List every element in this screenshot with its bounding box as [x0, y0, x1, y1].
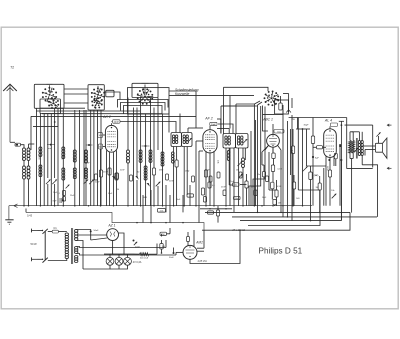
wire	[186, 147, 188, 196]
page number 72	[10, 65, 14, 69]
wire	[104, 92, 120, 100]
hum pot	[376, 132, 380, 143]
svg-text:8µF: 8µF	[53, 201, 57, 203]
wire	[33, 116, 58, 126]
label 50nF	[120, 170, 125, 172]
wire	[196, 141, 203, 206]
label 4,05V	[198, 260, 208, 263]
wire	[31, 116, 196, 123]
svg-text:50nF: 50nF	[251, 187, 256, 189]
label 1M	[314, 175, 319, 177]
label 50nF	[85, 163, 90, 165]
coil L12	[149, 98, 152, 206]
wire	[10, 141, 15, 143]
wire	[306, 129, 308, 166]
svg-text:700: 700	[162, 246, 165, 248]
wire	[30, 116, 32, 150]
tube ABC1	[265, 124, 281, 152]
trimmer C8	[147, 183, 150, 187]
wire	[188, 128, 203, 133]
wire	[50, 114, 52, 206]
wire	[287, 121, 289, 218]
wire	[189, 185, 191, 206]
resistor 0,1M	[311, 121, 314, 158]
speaker	[362, 138, 387, 158]
field resistor	[349, 132, 355, 213]
wire	[43, 114, 45, 206]
resistor box	[275, 96, 289, 114]
wire	[119, 233, 125, 254]
electrolytic	[339, 144, 341, 147]
svg-text:4,5k: 4,5k	[160, 211, 164, 213]
svg-text:4V 0,3A: 4V 0,3A	[133, 261, 142, 264]
wire	[254, 101, 260, 206]
capacitor 8uF	[313, 157, 319, 206]
band switch box S1	[34, 84, 64, 113]
wire	[217, 129, 229, 134]
trimmer C1	[46, 180, 51, 206]
wire loop	[121, 103, 166, 111]
resistor 1M	[187, 232, 190, 245]
resistor	[115, 173, 118, 180]
wire	[64, 88, 88, 90]
resistor	[245, 181, 248, 188]
resistor 1M	[313, 146, 326, 149]
wire	[229, 184, 246, 187]
svg-text:mw: mw	[48, 148, 52, 150]
transformer secondary heater2	[75, 255, 78, 262]
wire	[236, 104, 254, 134]
label Philips D 51	[259, 247, 303, 256]
svg-text:50nF: 50nF	[205, 170, 210, 172]
wire	[250, 131, 252, 206]
wire	[99, 110, 102, 206]
resistor 1k	[187, 194, 194, 198]
label 50	[315, 175, 318, 177]
wire	[179, 114, 181, 133]
capacitor 50nF	[328, 159, 330, 161]
svg-text:AZ 1: AZ 1	[107, 224, 115, 228]
band switch box S2	[88, 85, 114, 110]
series resistor 0,1A	[133, 253, 157, 260]
wire	[76, 234, 107, 236]
label 30	[137, 172, 140, 174]
svg-text:Philips D 51: Philips D 51	[259, 247, 303, 256]
wire	[83, 110, 85, 206]
wire	[83, 265, 110, 269]
tube AM2	[176, 230, 204, 259]
wire	[133, 108, 135, 206]
svg-text:25nF: 25nF	[103, 172, 108, 174]
svg-text:50nF: 50nF	[169, 257, 174, 259]
svg-text:0,5: 0,5	[212, 185, 215, 187]
pin wires AK2	[107, 151, 117, 206]
coil L16	[227, 148, 230, 185]
pin wires AL4	[326, 156, 334, 206]
svg-text:AK 2: AK 2	[102, 115, 111, 119]
svg-text:1kΩ: 1kΩ	[277, 131, 281, 133]
wire	[203, 230, 205, 248]
component row boxes	[95, 173, 195, 182]
coil L13	[161, 114, 164, 206]
wire	[302, 129, 304, 206]
antenna coil L1	[23, 148, 26, 206]
capacitor 1k box	[274, 130, 284, 134]
wire loop	[124, 106, 163, 114]
NF pot	[331, 190, 336, 198]
tube AK2	[102, 115, 117, 152]
svg-text:0,43: 0,43	[27, 214, 33, 218]
wire	[100, 149, 102, 206]
coil L11	[144, 114, 147, 206]
pin wires AF2	[206, 151, 214, 206]
svg-text:AF 2: AF 2	[204, 117, 213, 121]
wire	[262, 145, 269, 165]
wire	[64, 102, 88, 104]
label 50nF	[251, 187, 256, 189]
transformer core	[72, 228, 73, 264]
wire	[190, 230, 240, 263]
wire	[167, 228, 171, 234]
wire	[345, 125, 373, 167]
cathode resistor	[328, 170, 331, 206]
switch wafer S2b	[91, 97, 103, 109]
switch wafer S4	[264, 90, 280, 106]
junction dots	[23, 205, 303, 207]
wire	[64, 93, 88, 95]
core mark	[142, 145, 150, 147]
label smudges above bus	[53, 189, 300, 201]
wire	[224, 87, 269, 133]
svg-text:25n: 25n	[257, 174, 260, 176]
resistor 0,1M	[201, 188, 204, 195]
wire	[91, 238, 107, 240]
mains switch	[38, 229, 48, 263]
svg-text:50n: 50n	[99, 147, 102, 149]
wire	[110, 265, 128, 269]
wire	[157, 98, 159, 151]
label 1150	[326, 166, 328, 171]
aerial stub	[283, 94, 291, 113]
wire	[79, 110, 81, 206]
bus wire	[205, 212, 350, 214]
bus wire	[248, 190, 320, 226]
wire	[40, 107, 85, 109]
trimmer C4	[89, 180, 94, 185]
coil L9	[127, 150, 130, 206]
svg-text:72: 72	[10, 65, 14, 69]
svg-text:20pF: 20pF	[211, 124, 217, 126]
wire	[97, 110, 99, 206]
label 25nF	[221, 187, 226, 189]
wire	[312, 118, 314, 122]
resistor 4,5k	[158, 209, 166, 213]
capacitor 50nF	[233, 183, 240, 187]
coil L15	[172, 147, 175, 206]
capacitor	[266, 176, 269, 182]
svg-text:AM2: AM2	[195, 241, 203, 245]
coil L5	[73, 110, 76, 206]
wire	[76, 230, 91, 232]
capacitor 50nF	[90, 230, 99, 240]
trimmer in T1	[188, 138, 192, 142]
wire	[291, 98, 293, 108]
wire	[165, 185, 167, 212]
label 3M	[316, 187, 319, 189]
coil label	[160, 158, 162, 162]
wire	[175, 147, 178, 206]
bus wire	[202, 212, 350, 230]
wire	[136, 108, 138, 178]
transformer secondary HT	[75, 229, 78, 240]
wire	[233, 148, 235, 212]
wire	[36, 108, 38, 205]
wire	[91, 110, 94, 206]
svg-text:0,5M: 0,5M	[277, 186, 282, 188]
label 1M	[277, 169, 282, 205]
wire	[238, 148, 240, 161]
wire	[289, 118, 347, 126]
capacitor 8uF	[53, 198, 64, 203]
transformer primary	[48, 232, 69, 261]
wire	[57, 108, 59, 205]
wire	[346, 125, 348, 169]
terminal arrow	[387, 167, 391, 169]
ground	[5, 206, 13, 225]
wire	[263, 106, 284, 132]
wire	[195, 95, 197, 128]
svg-text:50nF: 50nF	[94, 230, 100, 232]
wire	[182, 195, 184, 212]
bus wire	[232, 216, 377, 218]
svg-text:ABC 1: ABC 1	[262, 117, 273, 121]
wire	[297, 118, 299, 130]
field pot tap	[354, 148, 358, 152]
wire	[229, 148, 231, 206]
svg-text:4MΩ: 4MΩ	[159, 170, 164, 172]
resistor 7M	[160, 232, 167, 236]
wire	[258, 102, 263, 212]
resistor 700	[160, 244, 165, 250]
svg-text:1MΩ: 1MΩ	[143, 197, 148, 199]
resistor	[239, 172, 242, 178]
tube AF2	[203, 117, 217, 153]
wire	[47, 114, 49, 179]
svg-text:0,1: 0,1	[57, 193, 60, 195]
capacitor 50nF	[234, 196, 241, 200]
svg-text:8µF: 8µF	[315, 158, 319, 160]
wire	[199, 151, 203, 223]
wire	[76, 247, 166, 248]
coil L10	[139, 98, 142, 206]
label 0,43	[27, 214, 33, 218]
resistor	[217, 172, 220, 178]
fuse C1	[48, 226, 65, 233]
trimmer C6	[156, 182, 161, 206]
svg-text:50 W: 50 W	[31, 242, 38, 246]
cap capacitor AL4	[330, 123, 338, 129]
label Fa	[292, 117, 296, 121]
IF transformer T2	[223, 134, 248, 149]
wire	[36, 110, 140, 112]
resistor	[203, 182, 214, 202]
wire	[307, 165, 327, 167]
bus wire 2	[26, 209, 204, 231]
antenna fuse	[15, 143, 24, 148]
grid resistor	[98, 133, 106, 138]
svg-text:1k: 1k	[189, 196, 191, 198]
coil L7	[85, 110, 88, 206]
svg-text:30pF: 30pF	[304, 125, 310, 127]
resistor 0,5M	[292, 175, 295, 206]
pilot lamp	[124, 254, 132, 265]
coil label	[125, 157, 149, 162]
pilot lamp	[115, 254, 123, 265]
resistor 30	[334, 153, 337, 166]
wire	[290, 129, 292, 175]
capacitor 50nF	[208, 211, 214, 214]
label 1M	[236, 170, 239, 172]
wire	[169, 91, 196, 95]
wire	[282, 105, 284, 217]
volume pot	[230, 161, 243, 206]
trimmer in T2	[243, 139, 247, 143]
trimmer C5	[135, 176, 138, 206]
lamp bus	[104, 253, 133, 254]
svg-text:20nF: 20nF	[95, 182, 100, 184]
svg-text:1MΩ: 1MΩ	[185, 171, 190, 173]
coil label	[72, 157, 88, 162]
wire	[253, 107, 265, 206]
svg-text:7M: 7M	[162, 234, 165, 236]
wire	[339, 121, 344, 220]
bus wire	[240, 220, 341, 222]
switch wafer S1a	[42, 84, 57, 102]
svg-text:C1: C1	[53, 226, 57, 230]
ground bus	[9, 204, 312, 208]
cap capacitor 20pF	[210, 122, 217, 130]
trimmer C2	[52, 108, 57, 205]
wire	[120, 122, 176, 133]
svg-text:50nF: 50nF	[120, 170, 125, 172]
wire	[169, 96, 254, 129]
antenna coil L2	[27, 144, 30, 206]
transformer secondary heater1	[75, 246, 78, 253]
antenna	[3, 84, 17, 142]
capacitor 50nF	[133, 240, 141, 249]
wire	[269, 152, 277, 190]
label 1M	[185, 171, 190, 173]
svg-text:30: 30	[117, 189, 119, 191]
wire	[175, 252, 177, 255]
wire	[217, 119, 221, 134]
terminal arrow	[387, 124, 391, 126]
trimmer C7	[112, 176, 115, 180]
resistor	[57, 191, 65, 202]
wire	[362, 165, 377, 217]
trimmer C9	[66, 185, 70, 189]
wire	[157, 240, 166, 254]
svg-text:25nF: 25nF	[221, 187, 226, 189]
switch wafer S1b	[48, 97, 60, 109]
wire	[29, 143, 35, 145]
label 50nF	[205, 170, 210, 172]
bus segment	[200, 208, 232, 210]
svg-text:1M: 1M	[236, 170, 239, 172]
svg-text:3M: 3M	[316, 187, 319, 189]
wire	[347, 168, 373, 170]
coil label	[38, 155, 63, 160]
resistor	[209, 176, 212, 182]
capacitor 30pF	[296, 125, 310, 130]
svg-text:0,1M: 0,1M	[278, 169, 283, 171]
resistor 0,3M	[291, 129, 295, 206]
wire	[161, 234, 163, 254]
label 4M	[159, 170, 164, 172]
tube AZ1	[107, 224, 119, 241]
wire	[249, 106, 261, 206]
svg-text:27 u 100 kΩ: 27 u 100 kΩ	[232, 230, 246, 232]
wire	[168, 108, 170, 133]
svg-text:1kΩ: 1kΩ	[296, 198, 300, 200]
wire	[183, 147, 185, 206]
label 10k	[217, 160, 219, 164]
label 50nF	[169, 181, 174, 183]
label ABC1	[262, 117, 273, 121]
switch wafer S2a	[91, 86, 105, 102]
wire	[298, 189, 320, 191]
svg-text:1M: 1M	[278, 203, 281, 205]
capacitor	[223, 190, 226, 196]
label 20nF	[95, 182, 100, 184]
wire	[291, 115, 293, 221]
svg-text:50nF: 50nF	[169, 181, 174, 183]
resistor	[204, 170, 207, 177]
label Schalterstellung Kurzwelle	[175, 88, 199, 96]
svg-text:50n: 50n	[235, 198, 238, 200]
tube AL4	[324, 118, 337, 157]
resistor	[309, 166, 312, 221]
svg-text:4,05 V/A: 4,05 V/A	[198, 260, 208, 263]
wire	[340, 159, 342, 221]
output transformer	[352, 132, 364, 165]
label 27+100	[232, 230, 246, 232]
resistor column under ABC1	[271, 147, 277, 206]
resistor 1M	[275, 180, 278, 206]
wire	[142, 195, 144, 223]
svg-text:AL 4: AL 4	[324, 118, 332, 122]
resistor	[318, 176, 321, 212]
wire	[280, 150, 282, 212]
capacitor 50nF	[169, 248, 175, 260]
core mark	[47, 144, 55, 150]
capacitor	[254, 190, 257, 196]
capacitor 50nF	[98, 144, 105, 149]
wire	[169, 195, 171, 223]
coil L3	[39, 114, 42, 206]
capacitor 25n	[257, 165, 266, 206]
capacitor 25nF	[216, 206, 219, 223]
coil L14	[242, 148, 245, 206]
wire	[255, 120, 257, 206]
IF transformer T1	[171, 133, 192, 147]
wire	[150, 190, 152, 223]
wire loop	[118, 100, 169, 108]
wire	[221, 106, 254, 134]
wire	[221, 105, 258, 107]
wire	[76, 241, 83, 270]
trimmer C3	[84, 180, 89, 185]
